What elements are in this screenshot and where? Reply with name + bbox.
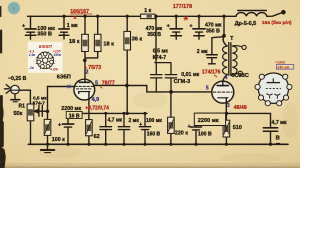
svg-text:+: + xyxy=(167,24,170,30)
svg-text:Др-5-0,5: Др-5-0,5 xyxy=(235,21,257,27)
svg-text:2200 мк: 2200 мк xyxy=(61,106,81,112)
svg-text:+: + xyxy=(22,24,25,30)
svg-text:+108: +108 xyxy=(50,68,58,72)
svg-text:6Э5П: 6Э5П xyxy=(57,74,71,80)
svg-text:К74-7: К74-7 xyxy=(33,100,46,105)
svg-text:5: 5 xyxy=(206,85,209,91)
svg-text:100 В: 100 В xyxy=(198,131,212,137)
svg-text:16 В: 16 В xyxy=(69,114,80,120)
svg-text:100 к: 100 к xyxy=(52,137,65,143)
svg-text:-2в: -2в xyxy=(29,66,34,70)
svg-text:+: + xyxy=(188,124,191,130)
svg-text:220 к: 220 к xyxy=(175,130,188,136)
svg-text:4,9: 4,9 xyxy=(92,97,100,103)
svg-text:18 к: 18 к xyxy=(103,41,114,47)
svg-text:2200 мк: 2200 мк xyxy=(198,118,219,124)
svg-text:184 (без р/л): 184 (без р/л) xyxy=(262,19,292,26)
svg-text:510: 510 xyxy=(233,125,242,131)
svg-text:0,01 мк: 0,01 мк xyxy=(181,72,199,78)
svg-text:350 В: 350 В xyxy=(37,31,52,37)
svg-text:48/48: 48/48 xyxy=(234,105,247,111)
svg-text:2 мк: 2 мк xyxy=(129,118,140,124)
svg-text:75/73: 75/73 xyxy=(88,65,101,71)
svg-text:6С33С: 6С33С xyxy=(231,73,249,79)
svg-text:2,4в: 2,4в xyxy=(29,53,36,57)
svg-text:Т: Т xyxy=(230,36,233,42)
svg-text:78/77: 78/77 xyxy=(102,81,115,87)
svg-text:100 мк: 100 мк xyxy=(146,118,162,124)
svg-text:18 к: 18 к xyxy=(69,39,80,45)
svg-text:2: 2 xyxy=(86,70,89,76)
svg-text:1 мк: 1 мк xyxy=(67,23,78,29)
svg-text:4,7 мк: 4,7 мк xyxy=(108,118,123,124)
svg-text:+: + xyxy=(58,123,61,129)
svg-text:3: 3 xyxy=(227,103,230,109)
svg-text:В: В xyxy=(276,135,280,141)
svg-text:+0,72/0,74: +0,72/0,74 xyxy=(85,105,109,111)
svg-text:36 к: 36 к xyxy=(132,36,143,42)
svg-text:+: + xyxy=(189,24,192,30)
svg-text:1 к: 1 к xyxy=(144,8,151,14)
svg-text:0,5 мк: 0,5 мк xyxy=(153,49,168,55)
svg-text:+: + xyxy=(139,122,142,128)
svg-text:R1: R1 xyxy=(19,104,26,110)
svg-text:К74-7: К74-7 xyxy=(153,55,167,61)
svg-text:4: 4 xyxy=(225,75,228,81)
svg-text:6Ж5П: 6Ж5П xyxy=(39,44,53,49)
svg-text:≈130в: ≈130в xyxy=(275,61,286,65)
svg-text:5: 5 xyxy=(95,80,98,86)
svg-text:350 В: 350 В xyxy=(206,28,220,34)
svg-text:160 В: 160 В xyxy=(147,132,161,138)
svg-text:СГМ-3: СГМ-3 xyxy=(174,79,191,85)
svg-text:~0,25 В: ~0,25 В xyxy=(8,76,27,82)
svg-text:2 мк: 2 мк xyxy=(197,49,208,55)
svg-text:150в: 150в xyxy=(53,53,61,57)
svg-text:62: 62 xyxy=(94,134,100,140)
svg-text:350 В: 350 В xyxy=(147,32,161,38)
svg-text:177/178: 177/178 xyxy=(173,4,193,10)
svg-text:174/176: 174/176 xyxy=(202,70,221,76)
